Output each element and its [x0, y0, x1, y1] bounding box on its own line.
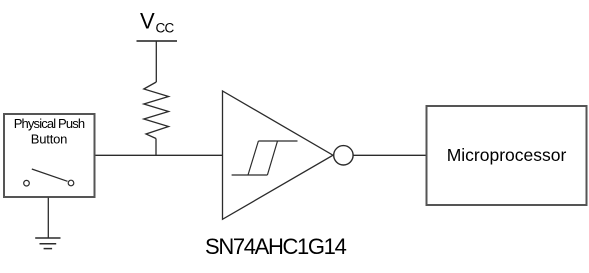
inverter output bubble — [334, 146, 353, 165]
inverter U1 triangle (SN74AHC1G14) — [223, 91, 334, 219]
wire resistor bottom to node A — [155, 139, 157, 156]
svg-text:SN74AHC1G14: SN74AHC1G14 — [205, 234, 347, 259]
svg-text:Physical Push: Physical Push — [14, 116, 85, 131]
svg-text:CC: CC — [156, 21, 175, 36]
svg-text:Button: Button — [31, 131, 67, 146]
wire VCC bar to resistor top — [155, 41, 157, 82]
wire inverter output to microprocessor — [353, 154, 426, 156]
wire push button to inverter input (node A) — [95, 154, 222, 156]
switch contact right — [68, 180, 74, 186]
push button label — [14, 116, 85, 147]
power VCC rail bar — [137, 40, 178, 42]
switch contact left — [24, 180, 30, 186]
wire push button to ground — [47, 198, 49, 238]
svg-text:V: V — [140, 9, 155, 34]
hysteresis symbol — [232, 141, 298, 175]
resistor R1 (pull-up) — [144, 82, 169, 139]
ground — [35, 238, 60, 249]
microprocessor box — [427, 106, 587, 205]
switch lever — [32, 169, 68, 181]
power VCC label — [140, 9, 174, 36]
push button box S1 — [4, 114, 95, 197]
svg-text:Microprocessor: Microprocessor — [447, 145, 567, 165]
